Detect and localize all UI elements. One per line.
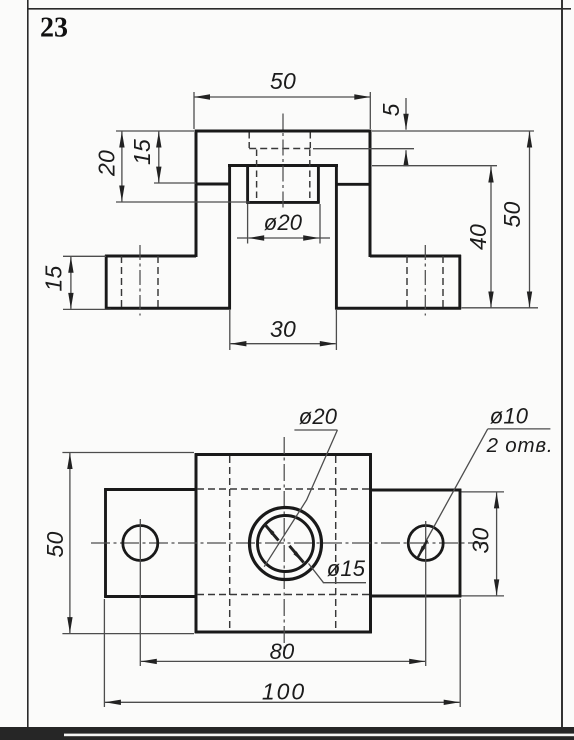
extension line top-of-block to left — [116, 130, 194, 132]
bottom view right tab right edge — [459, 489, 462, 598]
dim 30 bottom-view dimension line — [496, 492, 498, 595]
bottom view right tab top edge — [371, 489, 462, 492]
svg-text:ø15: ø15 — [327, 556, 366, 581]
front view counterbore left edge — [246, 166, 249, 204]
svg-text:15: 15 — [41, 266, 67, 292]
svg-text:15: 15 — [129, 139, 155, 165]
bottom view central outer circle phi20 — [250, 508, 322, 580]
front view counterbore bottom edge — [246, 201, 319, 204]
extension line step shelf to left — [154, 182, 196, 184]
front view hidden line hole lower left — [256, 150, 258, 199]
dim phi20 front extension left — [247, 204, 249, 244]
bottom view horizontal centerline — [91, 542, 490, 544]
bottom view hidden wing line top — [197, 488, 370, 490]
svg-text:100: 100 — [262, 679, 306, 705]
leader phi20 diagonal — [264, 430, 337, 567]
bottom view left hole vertical centerline — [139, 519, 141, 666]
phi15 diameter arrow upper-left — [264, 524, 274, 535]
dim 15 lower-left dimension line — [70, 257, 72, 309]
front view left edge of upper block — [195, 130, 198, 257]
dim 50 top extension right — [369, 92, 371, 129]
front view left step shelf line — [196, 183, 230, 186]
extension line counterbore bottom to left — [116, 201, 250, 203]
dim 50 bottom-view dimension line — [69, 453, 71, 633]
front view bottom edge left segment — [105, 307, 231, 310]
extension line top-of-block to right — [372, 130, 534, 132]
front view bottom edge right segment — [335, 307, 461, 310]
leader phi20 shoulder — [294, 429, 337, 431]
extension line bottom to right — [462, 307, 539, 309]
front view left wing top edge — [105, 255, 196, 258]
svg-text:30: 30 — [468, 528, 494, 554]
dim 50 bottom-view extension bottom — [62, 633, 194, 635]
bottom scan bar white stripe — [64, 734, 574, 737]
leader phi15 shoulder — [323, 582, 366, 584]
dim phi20 front stub left — [237, 237, 248, 239]
bottom view left tab left edge — [104, 488, 107, 598]
front view left foot outer edge — [105, 255, 108, 310]
bottom view hidden wing line bottom — [197, 594, 370, 596]
leader phi15 diagonal — [309, 564, 324, 583]
front view right wing top edge — [370, 255, 461, 258]
dim 5 right upper arrow line — [405, 98, 407, 130]
dim 50 top dimension line — [194, 96, 370, 98]
bottom view central square right edge — [369, 453, 372, 633]
front view left tab hidden hole line left — [121, 256, 123, 308]
bottom view left tab top edge — [104, 488, 196, 491]
svg-text:20: 20 — [94, 150, 120, 177]
svg-text:30: 30 — [270, 316, 296, 342]
svg-text:2 отв.: 2 отв. — [486, 434, 554, 457]
page frame top horizontal line — [28, 8, 571, 10]
svg-text:5: 5 — [378, 103, 404, 116]
bottom view central square top edge — [195, 453, 372, 456]
front view top edge of upper block — [195, 130, 372, 133]
phi10 arrow inside hole — [417, 546, 425, 559]
front view right edge of upper block — [369, 130, 372, 257]
dim 30 front extension left — [229, 310, 231, 350]
bottom view central inner circle phi15 — [258, 516, 314, 572]
bottom view right hole vertical centerline — [425, 521, 427, 666]
bottom scan bar — [0, 727, 574, 740]
svg-text:40: 40 — [465, 224, 491, 250]
bottom view right hole circle — [408, 526, 443, 561]
bottom view hidden channel line left — [229, 456, 231, 631]
svg-text:50: 50 — [270, 68, 296, 94]
dim 20 left dimension line — [121, 132, 123, 202]
dim 50 right dimension line — [529, 132, 531, 308]
svg-text:ø20: ø20 — [264, 210, 303, 235]
bottom view central square bottom edge — [195, 630, 372, 633]
bottom view right tab bottom edge — [371, 595, 462, 598]
dim 30 front dimension line — [230, 343, 335, 345]
dim 100 dimension line — [105, 701, 460, 703]
page frame right vertical line — [561, 0, 563, 736]
page frame left vertical line — [27, 0, 29, 734]
front view right tab hidden hole line right — [442, 256, 444, 308]
front view channel left edge — [228, 164, 231, 309]
dim 30 front extension right — [335, 310, 337, 350]
front view right tab hidden hole line left — [406, 256, 408, 308]
svg-text:ø20: ø20 — [299, 404, 338, 429]
dim 80 dimension line — [141, 660, 425, 662]
front view hidden line hole lower right — [309, 150, 311, 199]
front view hidden line hole upper left — [248, 133, 250, 149]
bottom view hidden channel line right — [335, 456, 337, 631]
extension line counterbore step to right — [313, 148, 414, 150]
dim 15 lower-left extension top — [63, 255, 106, 257]
bottom view left hole circle — [123, 526, 158, 561]
front view channel top edge — [228, 164, 338, 167]
leader phi10 diagonal — [420, 429, 488, 552]
front view channel right edge — [335, 164, 338, 309]
front view hidden line hole horizontal — [249, 148, 310, 150]
svg-text:ø10: ø10 — [490, 404, 529, 429]
extension line channel top to right — [372, 165, 497, 167]
dim 100 extension right — [459, 599, 461, 707]
dim 50 bottom-view extension top — [62, 452, 194, 454]
front view counterbore right edge — [317, 166, 320, 204]
phi15 diameter arrow lower-right — [293, 551, 303, 562]
dim 30 bottom-view extension bottom — [462, 595, 505, 597]
front view right foot outer edge — [458, 255, 461, 310]
front view vertical centerline — [282, 114, 284, 212]
dim 15 left dimension line — [158, 132, 160, 183]
dim 40 right dimension line — [490, 167, 492, 308]
dim phi20 front extension right — [319, 204, 321, 244]
leader phi10 shoulder — [488, 428, 551, 430]
svg-text:80: 80 — [270, 639, 295, 664]
dim phi20 front dimension line — [248, 237, 319, 239]
dim phi20 front stub right — [319, 237, 330, 239]
svg-text:50: 50 — [42, 532, 68, 558]
dim 15 lower-left extension bottom — [63, 308, 111, 310]
dim 100 extension left — [103, 599, 105, 707]
svg-text:23: 23 — [40, 13, 68, 44]
front view right tab hole centerline — [424, 245, 426, 316]
front view left tab hidden hole line right — [157, 256, 159, 308]
front view right step shelf line — [336, 183, 371, 186]
svg-text:50: 50 — [499, 202, 525, 228]
bottom view vertical centerline — [283, 437, 285, 649]
front view left tab hole centerline — [139, 245, 141, 316]
dim 30 bottom-view extension top — [462, 491, 505, 493]
bottom view central square left edge — [195, 453, 198, 633]
dim 50 top extension left — [193, 92, 195, 129]
bottom view left tab bottom edge — [104, 595, 196, 598]
front view hidden line hole upper right — [309, 133, 311, 149]
dim 5 right lower arrow line — [405, 150, 407, 166]
